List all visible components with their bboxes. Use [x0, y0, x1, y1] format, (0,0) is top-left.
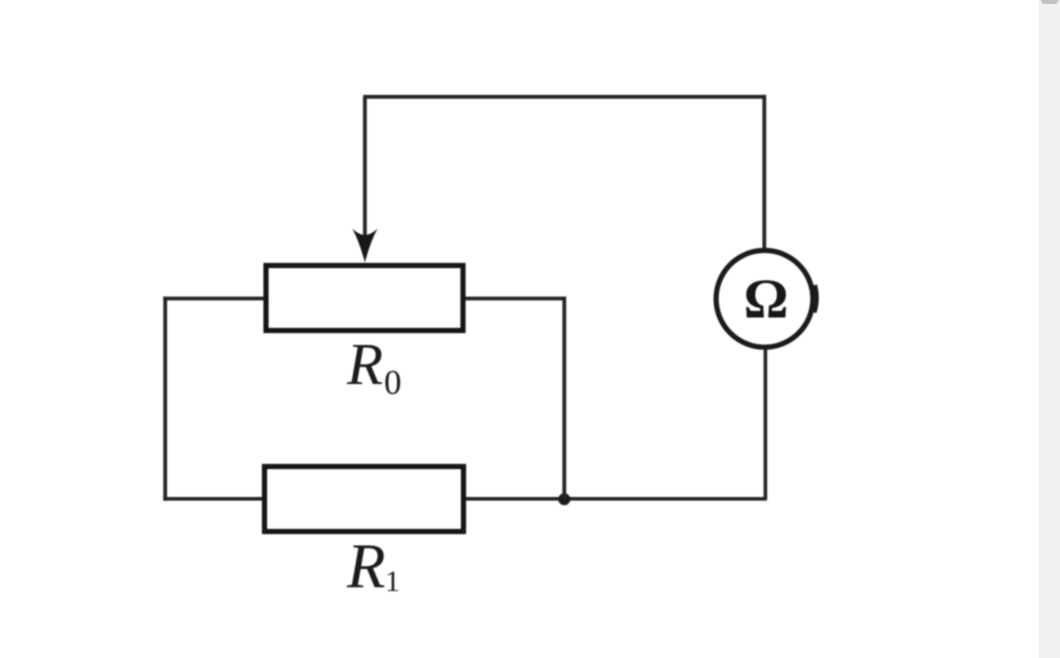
scrollbar track	[1039, 0, 1060, 658]
wire bottom rail from R1 right to ohmmeter branch	[466, 497, 767, 501]
wire left vertical	[163, 297, 167, 501]
wire middle vertical (R0 right down to junction)	[562, 297, 566, 500]
ohmmeter U1 circle	[716, 250, 813, 347]
ohmmeter right-edge thick arc artifact	[813, 286, 815, 313]
node junction dot	[558, 493, 570, 505]
svg-text:0: 0	[384, 363, 402, 402]
resistor R0 (potentiometer body)	[266, 266, 463, 331]
svg-text:Ω: Ω	[744, 269, 789, 331]
label R0	[346, 331, 402, 402]
svg-text:1: 1	[385, 565, 400, 598]
wiper arrow shaft	[363, 97, 367, 237]
label R1	[346, 532, 400, 602]
resistor R1 body	[265, 467, 464, 532]
wire right vertical lower (ohmmeter to bottom rail)	[764, 349, 768, 499]
wire R0 left lead	[163, 297, 264, 301]
wiper arrow head	[352, 229, 377, 263]
wire R1 left lead	[163, 497, 263, 501]
wire top horizontal from wiper to ohmmeter branch	[363, 95, 764, 99]
svg-text:R: R	[346, 532, 385, 602]
wire right vertical upper (top wire down to ohmmeter)	[762, 95, 766, 249]
wire R0 right lead	[465, 297, 566, 301]
scrollbar thumb	[1041, 0, 1059, 4]
svg-text:R: R	[346, 331, 383, 397]
